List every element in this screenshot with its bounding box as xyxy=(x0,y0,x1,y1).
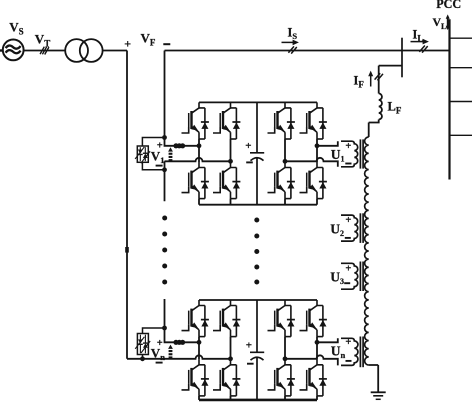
wire secondary bottom to ground xyxy=(369,365,379,392)
winding U1 primary with core xyxy=(341,141,358,167)
junction bypass box bottom module n xyxy=(140,356,145,361)
module 1 dc top bus xyxy=(199,101,317,103)
igbt Q2 module n top row xyxy=(213,300,240,337)
igbt Q3b module n bottom row xyxy=(268,359,295,396)
igbt Q1 module 1 top row xyxy=(182,102,209,139)
svg-text:VF: VF xyxy=(141,31,156,48)
wire module 1 to U1 primary upper xyxy=(317,141,338,146)
svg-text:LF: LF xyxy=(388,100,402,116)
leg mid wire module 1 leg 3 xyxy=(284,139,286,162)
leg mid wire module 1 leg 4 xyxy=(316,139,318,162)
igbt Q3 module 1 top row xyxy=(268,102,295,139)
arrow IS xyxy=(282,41,294,43)
dc link capacitor module 1 xyxy=(250,102,264,204)
svg-text:+: + xyxy=(124,37,131,51)
slash on line at IL xyxy=(419,46,427,53)
voltage arrow V1 xyxy=(168,147,173,151)
igbt Q4 module 1 top row xyxy=(300,102,327,139)
junction lower ac leg2 module 1 xyxy=(228,159,233,164)
junction upper ac leg4 module n xyxy=(315,340,320,345)
svg-text:IS: IS xyxy=(288,26,298,42)
igbt Q4b module n bottom row xyxy=(300,359,327,396)
module n lower ac wire from left rail with hop xyxy=(127,355,231,358)
load stub 1 xyxy=(450,37,473,39)
inductor LF xyxy=(379,94,382,120)
leg mid wire module n leg 4 xyxy=(316,337,318,360)
PCC bus xyxy=(448,19,450,179)
igbt Q2 module 1 top row xyxy=(213,102,240,139)
arrow IL xyxy=(411,41,424,43)
wires bypass box module n xyxy=(143,328,165,359)
inductor on module n upper ac wire xyxy=(173,340,178,345)
label minus of Un xyxy=(346,360,352,362)
leg exit wire module n leg 2 xyxy=(230,396,232,400)
wire module 1 to U1 primary lower with hop xyxy=(285,158,338,167)
igbt Q1 module n top row xyxy=(182,300,209,337)
leg exit wire module n leg 3 xyxy=(284,396,286,400)
junction chain rail to bypass box top module 1 xyxy=(162,135,167,140)
label minus of U2 xyxy=(345,237,351,239)
igbt Q1b module 1 bottom row xyxy=(182,162,209,199)
load stub 3 xyxy=(450,101,473,103)
junction upper ac leg1 module 1 xyxy=(197,143,202,148)
junction lower ac leg2 module n xyxy=(228,356,233,361)
junction upper ac leg1 module n xyxy=(197,340,202,345)
wires bypass box module 1 xyxy=(142,138,164,170)
igbt Q4 module n top row xyxy=(300,300,327,337)
inductor on module 1 upper ac wire xyxy=(173,143,178,148)
leg exit wire module 1 leg 3 xyxy=(284,199,286,205)
wire LF to injection transformer secondary xyxy=(369,120,379,138)
junction lower ac leg3 module 1 xyxy=(283,159,288,164)
mark on left rail xyxy=(125,247,129,253)
slash on filter branch xyxy=(375,73,383,80)
wire module n to Un primary lower with hop xyxy=(285,355,338,365)
svg-text:+: + xyxy=(245,140,251,152)
dc link capacitor module n xyxy=(250,300,264,400)
label minus of dc cap module 1 xyxy=(246,161,253,163)
chain rail into module n xyxy=(165,299,200,342)
arrow IF xyxy=(370,76,372,87)
svg-text:U1: U1 xyxy=(331,147,345,164)
slash marks VT xyxy=(40,47,49,55)
module n dc bottom bus xyxy=(199,399,317,402)
igbt Q2b module n bottom row xyxy=(213,359,240,396)
wire transformer to plus terminal xyxy=(103,50,127,52)
svg-text:Vn: Vn xyxy=(151,346,165,363)
wire source to transformer xyxy=(24,50,66,52)
junction chain rail to bypass box bottom module 1 xyxy=(162,167,167,172)
label minus of Vn xyxy=(156,362,163,364)
igbt Q1b module n bottom row xyxy=(182,359,209,396)
wire main line minus terminal to PCC xyxy=(165,50,450,52)
ac source VS xyxy=(0,40,24,61)
double arrow VL xyxy=(447,18,449,28)
svg-text:+: + xyxy=(345,337,351,348)
svg-text:+: + xyxy=(246,339,252,351)
svg-text:+: + xyxy=(345,141,351,152)
tap bar at filter branch xyxy=(401,38,403,78)
svg-text:PCC: PCC xyxy=(436,0,461,11)
leg mid wire module n leg 2 xyxy=(230,337,232,360)
module 1 lower ac wire with hop and chain continuation xyxy=(165,158,231,202)
svg-text:U3: U3 xyxy=(330,270,344,287)
wire module n to Un primary upper xyxy=(317,338,338,342)
label minus of VF xyxy=(163,43,170,45)
leg exit wire module 1 leg 4 xyxy=(316,199,318,205)
bypass protection box module n xyxy=(137,334,148,355)
svg-text:+: + xyxy=(345,263,351,274)
label minus of U3 xyxy=(344,282,350,284)
voltage arrow Vn xyxy=(168,345,173,349)
winding Un primary with core xyxy=(341,338,358,365)
svg-text:VS: VS xyxy=(9,20,23,37)
leg mid wire module 1 leg 1 xyxy=(198,139,200,162)
transformer T1 xyxy=(65,39,102,62)
leg exit wire module n leg 4 xyxy=(316,396,318,400)
junction lower ac leg3 module n xyxy=(283,356,288,361)
label minus of dc cap module n xyxy=(247,363,254,365)
igbt Q3b module 1 bottom row xyxy=(268,162,295,199)
injection transformer secondary winding xyxy=(365,137,369,365)
leg mid wire module n leg 1 xyxy=(198,337,200,360)
winding U2 primary with core xyxy=(341,215,358,241)
load stub 2 xyxy=(450,67,473,69)
igbt Q3 module n top row xyxy=(268,300,295,337)
junction upper ac leg4 module 1 xyxy=(315,143,320,148)
winding U3 primary with core xyxy=(341,263,358,289)
label minus of U1 xyxy=(345,163,351,165)
ellipsis dots center xyxy=(254,218,259,285)
left rail plus terminal down to module n xyxy=(126,51,128,359)
load stub 4 xyxy=(450,134,473,136)
svg-text:VT: VT xyxy=(35,31,50,48)
slash on line at IS xyxy=(288,46,296,53)
module 1 dc bottom bus xyxy=(199,204,317,206)
ellipsis dots left chain xyxy=(162,216,167,285)
igbt Q2b module 1 bottom row xyxy=(213,162,240,199)
svg-text:VL: VL xyxy=(433,15,448,31)
leg exit wire module 1 leg 2 xyxy=(230,199,232,205)
leg mid wire module n leg 3 xyxy=(284,337,286,360)
svg-text:IF: IF xyxy=(354,74,365,90)
svg-text:+: + xyxy=(345,215,351,226)
leg exit wire module n leg 1 xyxy=(198,396,200,400)
label minus of V1 xyxy=(156,165,163,167)
svg-text:U2: U2 xyxy=(330,222,344,239)
leg exit wire module 1 leg 1 xyxy=(198,199,200,205)
igbt Q4b module 1 bottom row xyxy=(300,162,327,199)
module n dc top bus xyxy=(199,299,317,301)
bypass protection box module 1 xyxy=(137,146,148,162)
junction chain rail to bypass box top module n xyxy=(162,326,167,331)
svg-text:Un: Un xyxy=(331,344,346,361)
ground xyxy=(371,391,386,393)
node chain rail minus terminal down to module 1 xyxy=(165,51,200,146)
leg mid wire module 1 leg 2 xyxy=(230,139,232,162)
wire branch to filter xyxy=(379,66,402,94)
